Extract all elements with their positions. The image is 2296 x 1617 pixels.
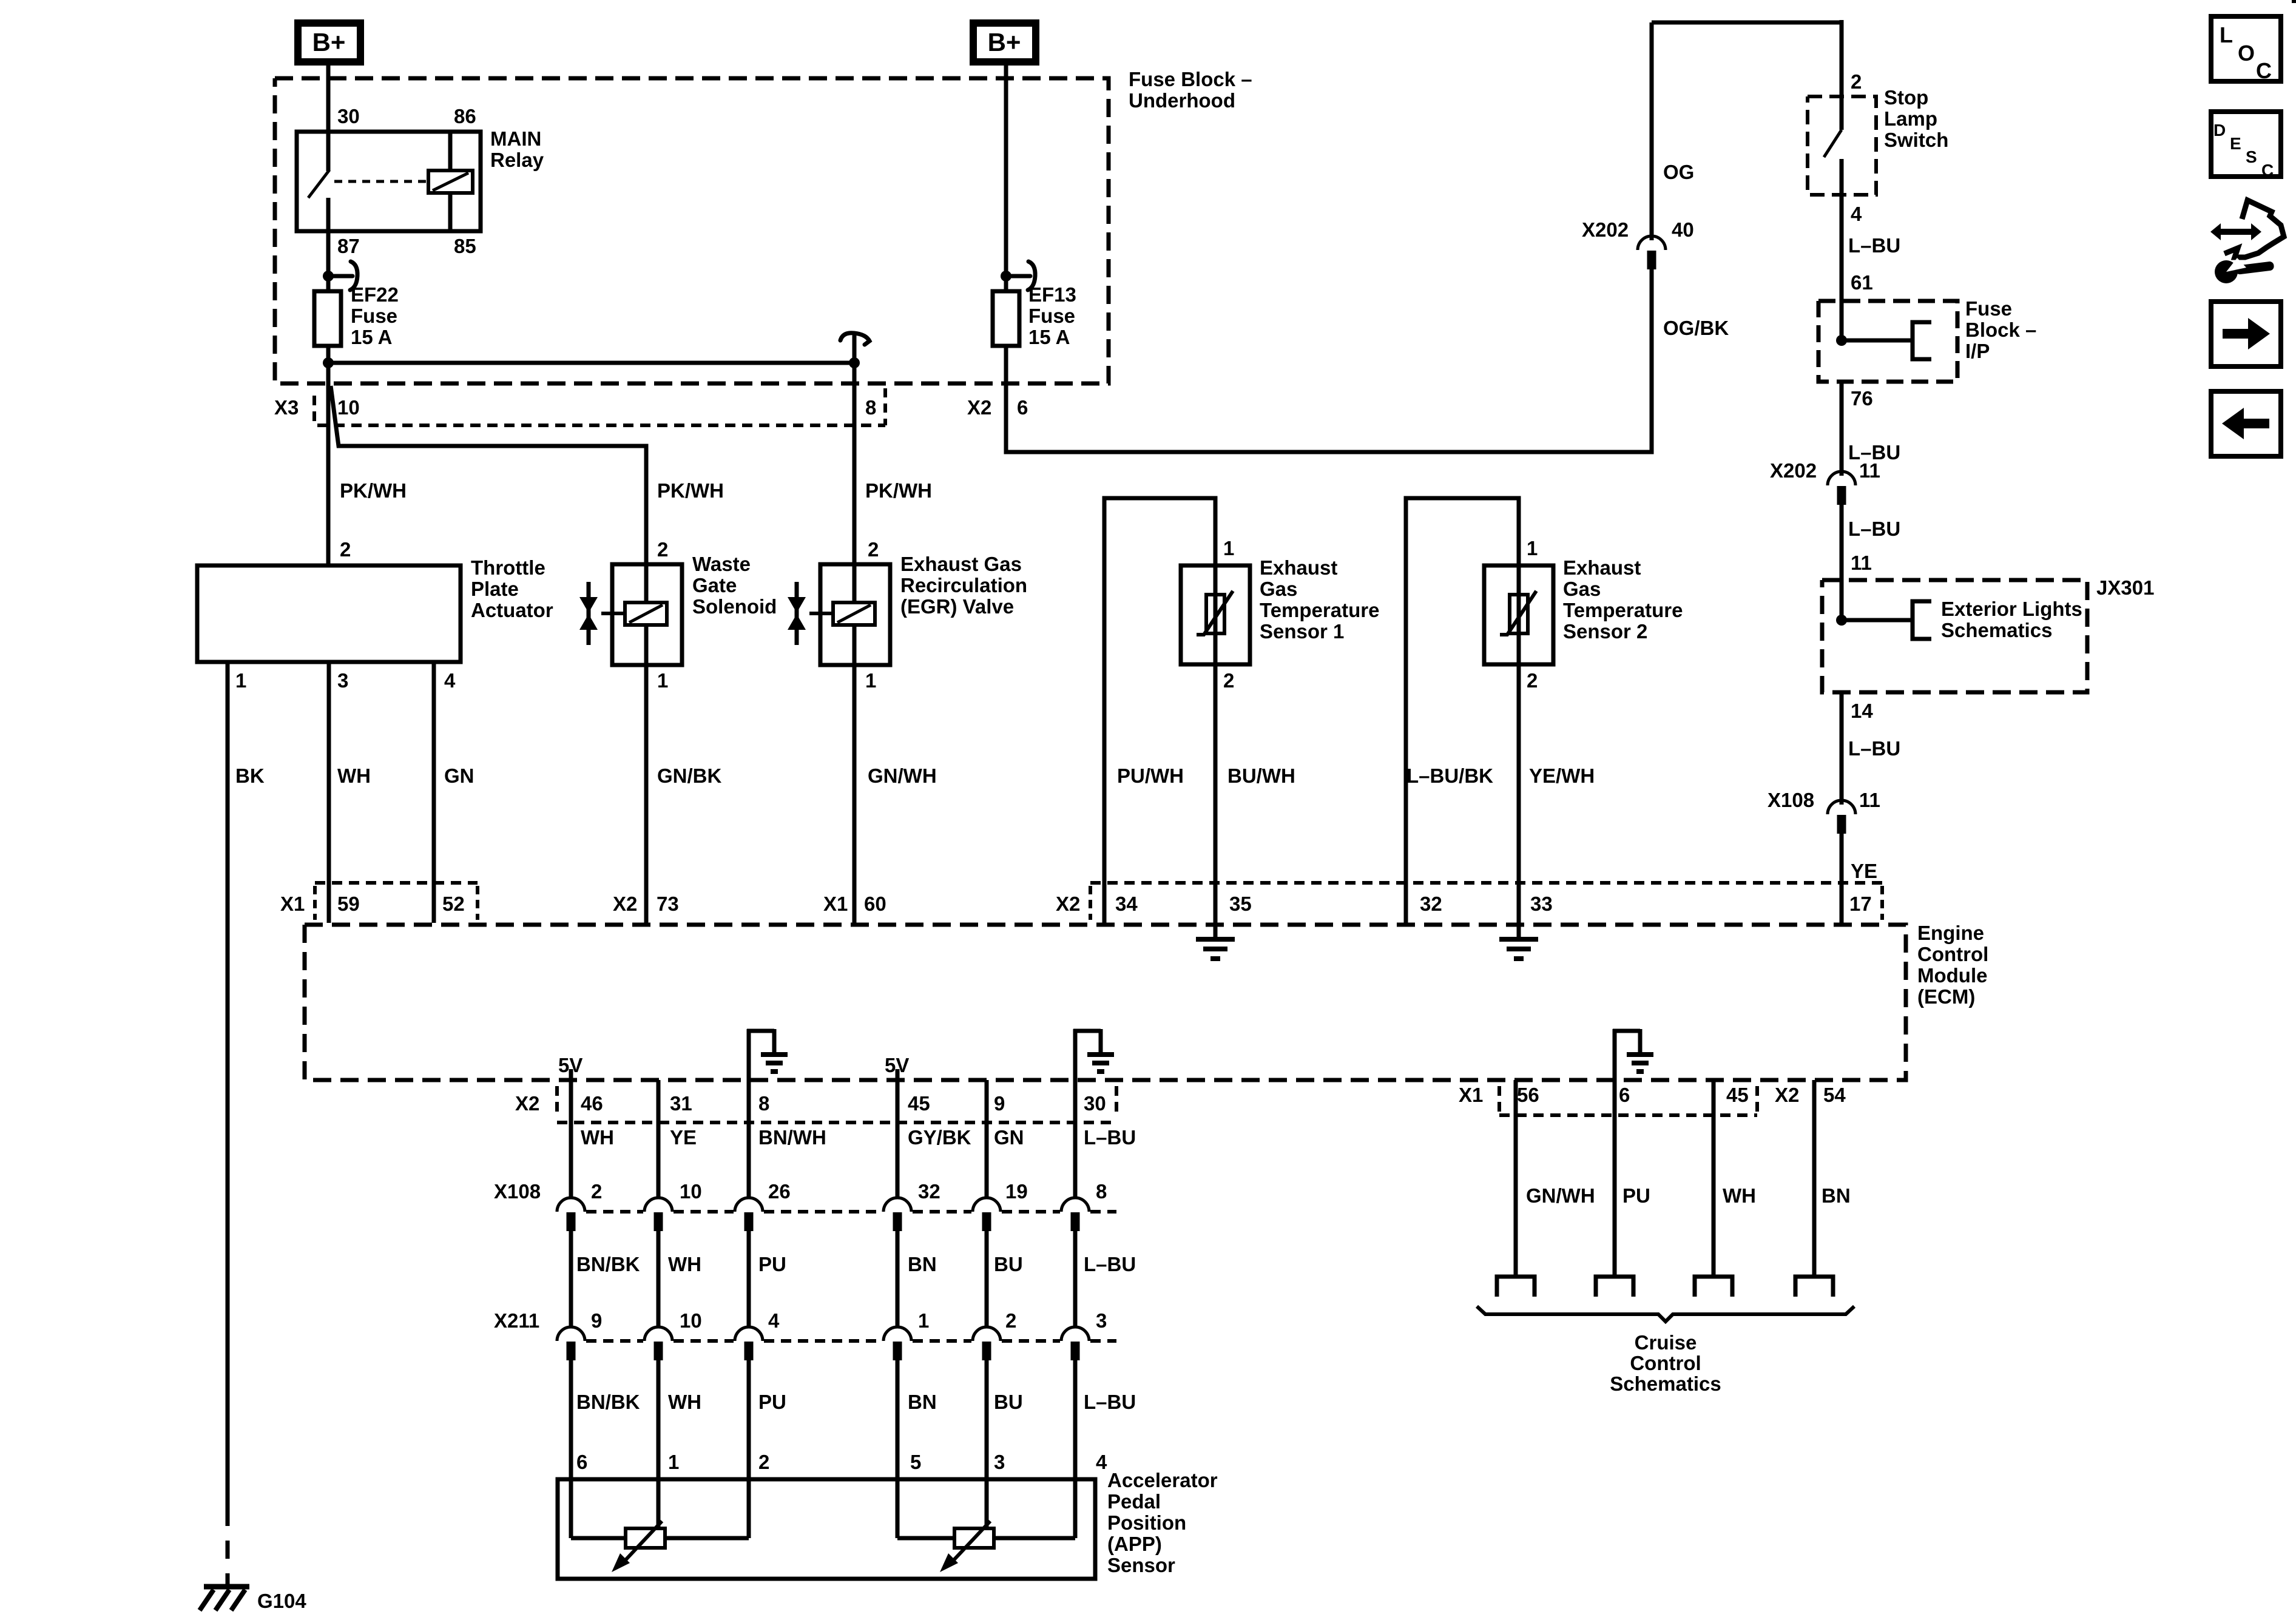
svg-text:6: 6 [576,1451,587,1473]
wire EGT2 pin 2 to ground [1517,664,1521,937]
B+ battery feed 1 [298,23,360,62]
svg-text:Gas: Gas [1260,578,1297,600]
svg-text:34: 34 [1115,893,1138,915]
wire waste gate pin 1 GN/BK [644,665,649,923]
svg-text:Exhaust: Exhaust [1563,556,1641,579]
svg-text:Switch: Switch [1884,129,1948,151]
junction dot JX301 [1836,615,1847,626]
svg-text:B+: B+ [312,28,346,56]
svg-text:X2: X2 [1775,1084,1799,1106]
svg-text:30: 30 [337,105,360,127]
JX301 stub [1842,618,1911,623]
wire IP to X202 pin 11 [1840,382,1844,476]
icon back arrow box [2211,391,2281,456]
svg-text:Cruise: Cruise [1635,1331,1697,1354]
svg-text:87: 87 [337,235,360,257]
svg-text:X3: X3 [274,396,299,419]
Fuse Block - Underhood dashed box [275,78,1109,383]
svg-text:Control: Control [1630,1352,1701,1374]
Fuse Block - I/P dashed box [1818,301,1957,382]
svg-text:32: 32 [1420,893,1442,915]
svg-text:32: 32 [918,1180,940,1203]
svg-text:PU: PU [1622,1184,1650,1207]
wire X202-11 to JX301 [1840,505,1844,620]
svg-text:L–BU/BK: L–BU/BK [1406,765,1493,787]
icon LOC box [2211,16,2281,81]
junction dot EGR feed [849,357,860,368]
svg-text:14: 14 [1851,700,1873,722]
svg-text:Sensor 1: Sensor 1 [1260,620,1344,643]
svg-text:X2: X2 [1056,893,1080,915]
svg-text:O: O [2238,41,2255,66]
icon forward arrow box [2211,302,2281,366]
svg-text:15 A: 15 A [351,326,392,348]
EGT sensor 2 box [1484,565,1553,664]
svg-text:1: 1 [668,1451,679,1473]
wires X211 to APP sensor [569,1360,573,1479]
BK wire dashed tail to G104 [226,1508,230,1585]
earth ground EGT1 [1196,937,1235,942]
junction dot EF22 top [323,271,334,282]
svg-text:L: L [2220,22,2233,47]
svg-text:15 A: 15 A [1028,326,1070,348]
Throttle Plate Actuator box [197,565,461,662]
EGR coil [833,603,875,625]
svg-text:61: 61 [1851,271,1873,294]
svg-text:45: 45 [908,1092,930,1115]
svg-text:Recirculation: Recirculation [900,574,1027,596]
svg-text:2: 2 [868,538,879,561]
svg-text:X202: X202 [1582,218,1629,241]
svg-text:X2: X2 [515,1092,539,1115]
APP pot 1 [626,1528,665,1548]
svg-text:C: C [2256,58,2272,83]
svg-text:9: 9 [591,1309,602,1332]
wire EF13 to stop lamp loop [1006,269,1652,452]
attachment hook EF13 top [1006,262,1035,290]
svg-text:L–BU: L–BU [1084,1253,1136,1275]
wire stop lamp pin 4 to fuse block IP [1840,195,1844,340]
EGT2 internal wire [1517,565,1521,664]
svg-text:1: 1 [1223,537,1234,559]
fuse EF13 [993,291,1019,346]
svg-text:10: 10 [680,1180,702,1203]
svg-text:8: 8 [1096,1180,1107,1203]
svg-text:GY/BK: GY/BK [908,1126,971,1149]
svg-text:40: 40 [1672,218,1694,241]
wire B+2 to fuse EF13 [1004,62,1008,291]
svg-text:52: 52 [442,893,465,915]
svg-text:19: 19 [1005,1180,1028,1203]
svg-text:BU: BU [994,1391,1023,1413]
hook ground BN/WH column [747,1029,751,1080]
svg-text:31: 31 [670,1092,692,1115]
svg-text:5: 5 [910,1451,921,1473]
svg-text:BU/WH: BU/WH [1227,765,1295,787]
svg-text:WH: WH [1723,1184,1756,1207]
svg-text:33: 33 [1530,893,1553,915]
cruise wires [1514,1080,1518,1277]
svg-text:2: 2 [1851,70,1862,93]
svg-text:2: 2 [657,538,668,561]
svg-text:BN: BN [908,1391,937,1413]
svg-text:76: 76 [1851,387,1873,410]
wires X108 to X211 row [569,1231,573,1327]
svg-text:OG: OG [1663,161,1694,183]
svg-text:L–BU: L–BU [1848,737,1900,760]
svg-text:YE: YE [1851,860,1877,882]
APP pot 2 wires [896,1479,900,1538]
svg-text:Fuse: Fuse [1965,297,2012,320]
svg-text:(EGR) Valve: (EGR) Valve [900,595,1014,618]
B+ battery feed 2 [973,23,1036,62]
svg-text:26: 26 [768,1180,791,1203]
svg-text:2: 2 [758,1451,769,1473]
svg-text:8: 8 [758,1092,769,1115]
wire branch to waste gate solenoid [331,386,646,564]
svg-text:3: 3 [1096,1309,1107,1332]
svg-text:Exhaust Gas: Exhaust Gas [900,553,1022,575]
junction dot EF13 top [1001,271,1011,282]
wire actuator pin 1 BK [226,662,230,1508]
svg-text:73: 73 [657,893,679,915]
svg-text:BN/WH: BN/WH [758,1126,826,1149]
svg-text:3: 3 [994,1451,1005,1473]
svg-text:2: 2 [1005,1309,1016,1332]
svg-text:L–BU: L–BU [1848,234,1900,257]
svg-text:Control: Control [1917,943,1988,965]
svg-text:1: 1 [235,669,246,692]
svg-text:PK/WH: PK/WH [865,479,932,502]
svg-text:56: 56 [1517,1084,1539,1106]
svg-text:1: 1 [1527,537,1538,559]
svg-text:I/P: I/P [1965,340,1990,362]
svg-text:17: 17 [1849,893,1872,915]
svg-text:L–BU: L–BU [1084,1126,1136,1149]
stop lamp switch blade [1824,130,1842,157]
svg-text:11: 11 [1859,459,1880,482]
svg-text:GN: GN [994,1126,1024,1149]
svg-text:10: 10 [337,396,360,419]
svg-text:BN: BN [908,1253,937,1275]
svg-text:GN: GN [444,765,474,787]
earth ground EGT2 [1499,937,1538,942]
wire X108-11 to ECM pin 17 YE [1840,834,1844,925]
EGT sensor 1 wire pin 1 [1104,498,1215,923]
svg-text:Actuator: Actuator [471,599,553,621]
cruise row X1 56 6 45 X2 54 [1497,1086,1501,1096]
svg-text:6: 6 [1017,396,1028,419]
Accelerator Pedal Position Sensor box [558,1479,1095,1579]
EGT sensor 1 box [1181,565,1250,664]
relay coil [428,170,473,193]
junction dot below EF22 [323,357,334,368]
svg-text:YE/WH: YE/WH [1529,765,1595,787]
svg-text:(APP): (APP) [1107,1533,1162,1555]
svg-text:X108: X108 [494,1180,541,1203]
wire actuator pin 3 WH [327,662,331,923]
svg-text:BN/BK: BN/BK [576,1391,640,1413]
svg-text:X2: X2 [613,893,637,915]
svg-text:4: 4 [444,669,456,692]
svg-text:GN/WH: GN/WH [1526,1184,1595,1207]
svg-text:35: 35 [1229,893,1252,915]
svg-text:X2: X2 [967,396,991,419]
svg-text:Plate: Plate [471,578,519,600]
EGR valve box [820,564,890,665]
EGT1 internal wire [1214,565,1218,664]
svg-text:PK/WH: PK/WH [340,479,407,502]
svg-text:1: 1 [657,669,668,692]
svg-text:1: 1 [865,669,876,692]
svg-text:Gate: Gate [692,574,737,596]
svg-text:59: 59 [337,893,360,915]
svg-text:S: S [2246,147,2257,166]
svg-text:60: 60 [864,893,886,915]
fuse EF22 [314,291,341,346]
hook ground L-BU column [1073,1029,1078,1080]
svg-text:PK/WH: PK/WH [657,479,724,502]
Waste Gate Solenoid box [612,564,682,665]
svg-text:OG/BK: OG/BK [1663,317,1729,339]
svg-text:Schematics: Schematics [1941,619,2052,641]
svg-text:G104: G104 [257,1590,306,1612]
wire EF22 junction to EF13 branch junction [328,361,854,365]
svg-text:WH: WH [581,1126,614,1149]
EGT1 thermistor [1206,595,1224,633]
wire relay pin 87 to fuse EF22 [326,198,331,292]
svg-text:Solenoid: Solenoid [692,595,777,618]
svg-text:D: D [2213,121,2226,140]
svg-text:JX301: JX301 [2096,576,2154,599]
svg-text:Engine: Engine [1917,922,1984,944]
svg-text:Fuse: Fuse [1028,305,1075,327]
wire B+1 to relay pin 30 [326,62,331,171]
svg-text:Accelerator: Accelerator [1107,1469,1218,1491]
svg-text:Fuse Block –: Fuse Block – [1129,68,1252,90]
page corner mark [2292,0,2296,3]
ground G104 [204,1584,249,1590]
JX301 terminal bracket [1913,601,1931,639]
svg-text:2: 2 [1527,669,1538,692]
svg-text:Waste: Waste [692,553,751,575]
svg-text:WH: WH [668,1391,701,1413]
fuse block IP terminal bracket [1913,322,1931,359]
svg-text:85: 85 [454,235,476,257]
svg-text:10: 10 [680,1309,702,1332]
svg-text:30: 30 [1084,1092,1106,1115]
svg-text:Schematics: Schematics [1610,1372,1721,1395]
APP pot 1 wires [569,1479,573,1538]
svg-text:BN: BN [1822,1184,1851,1207]
svg-text:GN/WH: GN/WH [868,765,937,787]
svg-text:MAIN: MAIN [490,127,541,150]
svg-text:9: 9 [994,1092,1005,1115]
svg-text:Underhood: Underhood [1129,89,1235,112]
ECM lower row X2 46 31 8 45 9 30 [555,1086,559,1096]
svg-text:Gas: Gas [1563,578,1601,600]
attachment hook EGR feed [840,333,869,361]
Stop Lamp Switch dashed box [1808,96,1876,195]
svg-text:WH: WH [337,765,371,787]
svg-text:Throttle: Throttle [471,556,545,579]
svg-text:2: 2 [591,1180,602,1203]
APP pot 2 [954,1528,994,1548]
EGR internal wire [853,564,857,603]
relay actuation dashed link [334,180,427,183]
svg-text:1: 1 [918,1309,929,1332]
svg-text:Sensor 2: Sensor 2 [1563,620,1647,643]
cruise terminals [1497,1277,1535,1297]
relay coil pin 85 lead [448,193,453,231]
svg-text:BN/BK: BN/BK [576,1253,640,1275]
svg-text:2: 2 [1223,669,1234,692]
svg-text:4: 4 [1851,203,1862,225]
svg-text:BU: BU [994,1253,1023,1275]
svg-text:Exhaust: Exhaust [1260,556,1337,579]
svg-text:4: 4 [768,1309,780,1332]
wires ECM to X108 row [569,1080,573,1198]
svg-text:Pedal: Pedal [1107,1490,1161,1513]
svg-text:X1: X1 [1459,1084,1483,1106]
svg-text:Block –: Block – [1965,319,2036,341]
svg-text:Sensor: Sensor [1107,1554,1175,1576]
svg-text:Exterior Lights: Exterior Lights [1941,598,2082,620]
wire actuator pin 4 GN [432,662,436,923]
svg-text:Position: Position [1107,1511,1186,1534]
svg-text:3: 3 [337,669,348,692]
MAIN relay box [297,132,481,231]
wire JX301 to X108 pin 11 [1840,692,1844,805]
EGT2 thermistor [1510,595,1528,633]
svg-text:YE: YE [670,1126,697,1149]
X3 connector row [312,396,316,405]
waste gate valve symbol [587,582,591,645]
svg-text:C: C [2261,161,2274,180]
svg-text:EF13: EF13 [1028,283,1076,306]
relay coil pin 86 lead [448,132,453,170]
svg-text:BK: BK [235,765,265,787]
svg-text:GN/BK: GN/BK [657,765,722,787]
svg-text:Module: Module [1917,964,1987,987]
icon DESC box [2211,112,2281,177]
svg-text:11: 11 [1859,789,1880,811]
cruise brace [1477,1306,1854,1322]
waste gate coil [625,603,667,625]
Engine Control Module dashed box [305,925,1906,1080]
ECM connector row upper right: X2 34..17 box [1090,881,1882,885]
svg-text:45: 45 [1726,1084,1749,1106]
svg-text:WH: WH [668,1253,701,1275]
svg-text:Stop: Stop [1884,86,1928,109]
svg-text:(ECM): (ECM) [1917,985,1975,1008]
svg-text:54: 54 [1823,1084,1846,1106]
svg-text:X1: X1 [280,893,305,915]
svg-text:X1: X1 [823,893,848,915]
attachment hook EF22 top [328,262,357,290]
EGT sensor 2 wire pin 1 [1406,498,1519,923]
svg-text:6: 6 [1619,1084,1630,1106]
JX301 dashed box [1822,580,2087,692]
svg-text:L–BU: L–BU [1848,518,1900,540]
wire EGR pin 1 GN/WH [853,665,857,923]
relay switch blade [308,170,329,198]
svg-text:Relay: Relay [490,149,544,171]
junction dot in fuse block IP [1836,335,1847,346]
svg-text:E: E [2230,134,2241,153]
svg-text:PU/WH: PU/WH [1117,765,1184,787]
svg-text:Lamp: Lamp [1884,107,1937,130]
svg-text:EF22: EF22 [351,283,399,306]
svg-text:PU: PU [758,1253,786,1275]
svg-text:46: 46 [581,1092,603,1115]
svg-text:X202: X202 [1770,459,1817,482]
svg-text:L–BU: L–BU [1084,1391,1136,1413]
hook ground PU column [1613,1029,1617,1080]
svg-text:8: 8 [865,396,876,419]
svg-text:PU: PU [758,1391,786,1413]
svg-text:86: 86 [454,105,476,127]
svg-text:Temperature: Temperature [1563,599,1683,621]
svg-text:Temperature: Temperature [1260,599,1379,621]
svg-text:2: 2 [340,538,351,561]
waste gate internal wire [644,564,649,603]
svg-text:11: 11 [1851,552,1872,574]
svg-text:X211: X211 [494,1309,539,1332]
EGR valve symbol [795,582,799,645]
wire EF22 to X3 pin 10 [326,346,331,565]
wire EGR feed down to EGR valve [853,363,857,564]
svg-text:4: 4 [1096,1451,1107,1473]
ECM connector row upper: X1 59 52 box [315,881,478,885]
svg-text:B+: B+ [988,28,1021,56]
wire EGT1 pin 2 to ground [1214,664,1218,937]
icon dual arrow with wrench [2210,223,2261,240]
svg-text:X108: X108 [1768,789,1814,811]
fuse block IP stub [1842,339,1911,343]
svg-text:Fuse: Fuse [351,305,397,327]
